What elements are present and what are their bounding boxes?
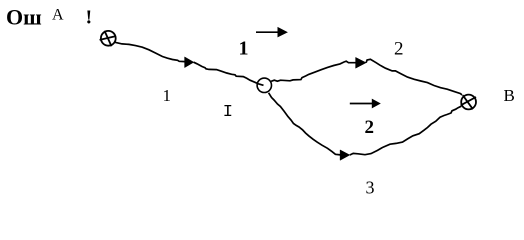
wire reach 1 (station A to junction) xyxy=(115,42,186,61)
svg-text:1: 1 xyxy=(239,38,249,60)
wire reach 3 continued to station B xyxy=(350,106,462,155)
svg-text:3: 3 xyxy=(366,178,375,198)
svg-text:A: A xyxy=(52,7,64,24)
wire reach 1 continued into junction xyxy=(194,62,264,85)
wire reach 2 (junction to station B, upper) xyxy=(271,61,356,81)
station symbol B (circle with rotated cross) xyxy=(461,95,476,110)
wire reach 3 (junction to station B, lower) xyxy=(269,93,341,155)
arrowhead on reach 1 xyxy=(185,57,194,68)
node circle I (junction) xyxy=(257,78,271,92)
svg-text:1: 1 xyxy=(163,86,172,105)
svg-text:2: 2 xyxy=(365,117,375,138)
arrowhead on reach 3 xyxy=(340,150,350,160)
svg-text:!: ! xyxy=(86,7,93,29)
arrowhead on reach 2 xyxy=(356,57,367,68)
flow arrow 1 (standalone) xyxy=(256,27,288,38)
svg-text:B: B xyxy=(504,86,515,105)
wire reach 2 continued to station B xyxy=(366,59,462,95)
svg-text:Ош: Ош xyxy=(6,4,42,29)
svg-text:I: I xyxy=(223,103,233,122)
svg-text:2: 2 xyxy=(394,39,404,60)
flow arrow 2 (standalone) xyxy=(350,99,381,109)
station symbol A (circle with rotated cross) xyxy=(100,31,116,47)
